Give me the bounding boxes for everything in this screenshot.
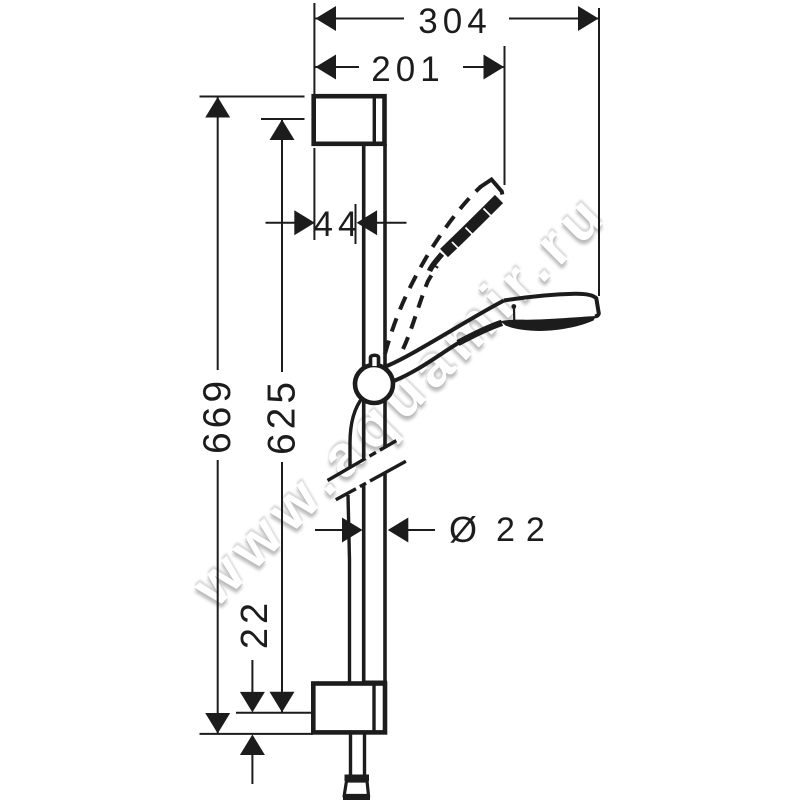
head button tick [513, 308, 515, 323]
top wall bracket [314, 96, 385, 144]
svg-text:304: 304 [418, 2, 491, 41]
svg-text:22: 22 [496, 511, 556, 549]
dashed-position head tip edge [480, 180, 503, 195]
arrow 22 upper (points down) [240, 692, 265, 713]
extension line bracket-hole (y=712.7) [236, 712, 313, 714]
dimension line 304 [315, 18, 599, 20]
hose nut bottom band [343, 796, 370, 800]
white gap for 201 label [359, 50, 463, 84]
rail right edge lower [383, 473, 387, 684]
holder knob [371, 355, 379, 366]
dimension diameter22 left stub [315, 529, 344, 531]
hose nut top band [345, 775, 370, 782]
svg-text:22: 22 [234, 599, 276, 649]
dashed handle inner curve (up position) [403, 266, 437, 349]
white gap for 669 label [200, 370, 234, 460]
svg-text:201: 201 [371, 50, 444, 89]
hose curve at holder [350, 397, 363, 467]
hose below bracket right edge [363, 734, 366, 776]
extension line wall-left (top, x=314.4) [313, 3, 315, 96]
svg-text:625: 625 [261, 378, 304, 455]
holder circle [355, 365, 393, 403]
svg-text:669: 669 [196, 377, 239, 454]
dashed handle outer curve (up position) [385, 187, 481, 355]
extension line bracket-bottom (y=733.9) [200, 733, 314, 735]
arrow 201 left [316, 55, 337, 80]
bottom bracket inner line [372, 684, 375, 733]
extension line 201-right (x=504.5) [504, 46, 506, 185]
svg-text:Ø: Ø [449, 509, 477, 550]
dimension 44 right stub [375, 222, 407, 224]
extension line wall-left (below bracket) [313, 148, 315, 240]
dimension line 669 (x=217.7) [217, 97, 219, 734]
handle lower line (solid) [393, 342, 461, 382]
rail end cap into bracket [362, 681, 387, 688]
dashed-position spray face band [444, 199, 499, 253]
handle upper line (solid, horizontal position) [386, 301, 505, 367]
svg-text:44: 44 [314, 205, 363, 244]
rail right edge upper [383, 144, 387, 447]
dimension line 625 (x=282) [281, 120, 283, 713]
extension line 304-right (x=599) [598, 8, 600, 296]
arrow diameter22 right (points left) [388, 518, 409, 543]
top bracket inner line [373, 96, 376, 144]
rail left edge lower [362, 485, 366, 684]
arrow 669 bottom [205, 713, 230, 734]
extension line 44-right (x=355.5) [355, 204, 357, 244]
hose nut body [344, 781, 368, 796]
arrow 44 left (points right) [294, 210, 315, 235]
extension line 625-top [261, 118, 305, 120]
shower head spray face (solid, dark) [501, 316, 596, 331]
arrow 22 lower (points up) [240, 735, 265, 756]
arrow 304 right [578, 6, 599, 31]
arrow 304 left [316, 6, 337, 31]
white gap for 625 label [264, 372, 298, 462]
rail left edge upper [362, 144, 366, 460]
dimension line 201 [315, 66, 504, 68]
extension line 669-top [200, 96, 305, 98]
arrow 201 right [484, 55, 505, 80]
dimension 44 left stub [266, 222, 297, 224]
arrow 625 bottom [270, 692, 295, 713]
watermark www.aquamir.ru [179, 178, 621, 619]
bottom wall bracket [313, 681, 387, 733]
dimension diameter22 right stub [406, 529, 435, 531]
handle lower thick segment [458, 323, 502, 343]
dimension 22 upper segment [251, 660, 253, 694]
hose below bracket left edge [349, 734, 352, 776]
dimension 22 lower segment [251, 753, 253, 784]
white gap for 304 label [404, 2, 509, 35]
spray band segmentation nicks [484, 209, 493, 218]
break line d2 [336, 461, 406, 500]
break line d1 [328, 441, 397, 481]
arrow 669 top [205, 97, 230, 118]
arrow diameter22 left (points right) [342, 518, 363, 543]
arrow 44 right (points left) [357, 210, 378, 235]
arrow 625 top [270, 120, 295, 141]
hose vertical lower [348, 495, 350, 684]
shower head outline (solid) [504, 294, 599, 317]
